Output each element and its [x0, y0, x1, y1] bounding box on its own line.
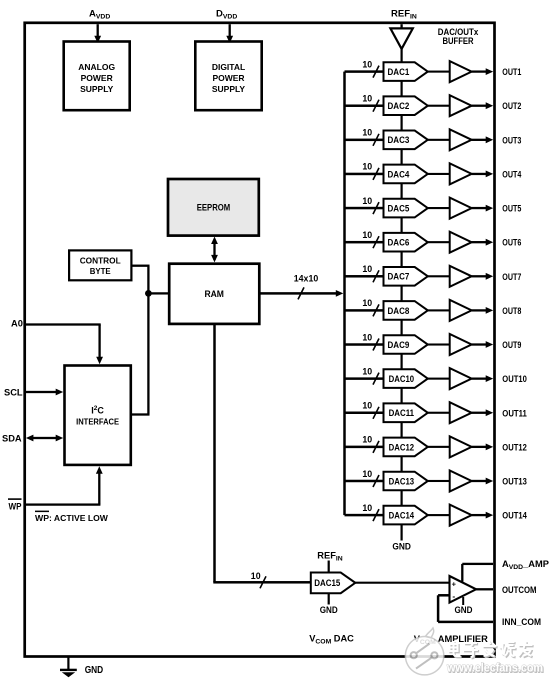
svg-text:OUT4: OUT4: [502, 169, 522, 179]
svg-text:SDA: SDA: [2, 434, 22, 444]
ref chain wire: [401, 354, 403, 370]
svg-text:DAC13: DAC13: [389, 476, 415, 486]
block CONTROL BYTE: [69, 250, 131, 280]
pin label AVDD_AMP: [502, 559, 549, 571]
svg-text:OUT3: OUT3: [502, 135, 521, 145]
dac block DAC5: [384, 199, 428, 218]
dac block DAC10: [384, 369, 428, 388]
wire CONTROL BYTE to I2C: [131, 265, 150, 416]
bus branch to DAC2 (10 bits): [345, 94, 384, 112]
svg-text:OUTCOM: OUTCOM: [502, 585, 537, 595]
svg-text:DAC14: DAC14: [389, 510, 415, 520]
bus branch to DAC13 (10 bits): [345, 469, 384, 487]
buffer amp row 2: [450, 95, 472, 116]
wire buffer to OUT5: [472, 205, 494, 212]
svg-text:10: 10: [362, 264, 372, 274]
wire WP to I2C: [25, 466, 103, 506]
svg-text:INN_COM: INN_COM: [502, 617, 541, 627]
svg-text:10: 10: [362, 298, 372, 308]
svg-text:DAC2: DAC2: [388, 101, 410, 111]
bus branch to DAC14 (10 bits): [345, 503, 384, 521]
ref chain wire: [401, 183, 403, 199]
caption VCOM DAC: [309, 634, 354, 646]
svg-text:10: 10: [362, 128, 372, 138]
buffer amp row 5: [450, 198, 472, 219]
wire buffer to OUT3: [472, 136, 494, 143]
svg-text:10: 10: [362, 196, 372, 206]
wire DAC14 to buffer: [428, 514, 450, 516]
op-amp VCOM amplifier: [450, 576, 477, 603]
buffer amp row 9: [450, 334, 472, 355]
buffer amp row 13: [450, 471, 472, 492]
bus branch to DAC5 (10 bits): [345, 196, 384, 214]
svg-text:OUT5: OUT5: [502, 204, 521, 214]
svg-text:POWER: POWER: [81, 73, 113, 83]
buffer amp row 14: [450, 505, 472, 526]
wire DAC13 to buffer: [428, 480, 450, 482]
wire DAC2 to buffer: [428, 105, 450, 107]
bus branch to DAC1 (10 bits): [345, 59, 384, 77]
svg-text:SUPPLY: SUPPLY: [212, 84, 246, 94]
dac block DAC3: [384, 131, 428, 150]
svg-text:DAC11: DAC11: [389, 408, 415, 418]
svg-text:DIGITAL: DIGITAL: [212, 62, 245, 72]
svg-text:-: -: [452, 591, 455, 601]
dac block DAC11: [384, 403, 428, 422]
chip outline border: [25, 23, 495, 657]
svg-text:OUT2: OUT2: [502, 101, 521, 111]
svg-text:OUT6: OUT6: [502, 238, 521, 248]
buffer amp row 10: [450, 368, 472, 389]
svg-text:OUT10: OUT10: [502, 374, 527, 384]
svg-text:10: 10: [362, 401, 372, 411]
wire buffer to OUT6: [472, 239, 494, 246]
svg-text:SCL: SCL: [4, 388, 23, 398]
wire DAC4 to buffer: [428, 173, 450, 175]
ref chain wire: [401, 320, 403, 336]
wire A0 to I2C: [25, 323, 103, 364]
svg-text:14x10: 14x10: [294, 273, 319, 283]
wire DAC10 to buffer: [428, 378, 450, 380]
ref chain wire: [401, 115, 403, 131]
wire buffer to OUT11: [472, 409, 494, 416]
wire DAC5 to buffer: [428, 207, 450, 209]
dac block DAC1: [384, 62, 428, 81]
svg-text:GND: GND: [85, 665, 104, 676]
wire INN_COM feedback: [437, 594, 493, 623]
svg-text:10: 10: [362, 469, 372, 479]
svg-text:SUPPLY: SUPPLY: [80, 84, 114, 94]
svg-text:WP: ACTIVE LOW: WP: ACTIVE LOW: [35, 513, 109, 523]
watermark logo disc: [405, 628, 443, 675]
svg-text:DAC4: DAC4: [388, 169, 411, 179]
svg-text:10: 10: [362, 366, 372, 376]
dac block DAC6: [384, 233, 428, 252]
svg-text:GND: GND: [392, 541, 411, 552]
svg-text:CONTROL: CONTROL: [80, 256, 121, 266]
wire buffer to OUT13: [472, 478, 494, 485]
svg-text:DAC7: DAC7: [388, 272, 410, 282]
svg-text:10: 10: [362, 230, 372, 240]
wire DAC15 to GND: [328, 593, 330, 604]
dac block DAC2: [384, 96, 428, 115]
svg-text:DAC15: DAC15: [314, 578, 340, 588]
ref chain wire: [401, 149, 403, 165]
pin label DVDD: [216, 9, 237, 21]
wire DAC8 to buffer: [428, 309, 450, 311]
svg-text:10: 10: [362, 332, 372, 342]
wire DAC9 to buffer: [428, 343, 450, 345]
svg-text:BYTE: BYTE: [90, 266, 111, 276]
svg-text:10: 10: [362, 435, 372, 445]
bus branch to DAC9 (10 bits): [345, 332, 384, 350]
svg-text:10: 10: [362, 162, 372, 172]
wire AVDD_AMP: [461, 563, 493, 582]
wire buffer to OUT8: [472, 307, 494, 314]
bus RAM to DACs 14x10: [259, 273, 343, 299]
svg-text:A0: A0: [11, 318, 23, 328]
block I2C INTERFACE: [65, 366, 131, 465]
bus branch to DAC12 (10 bits): [345, 435, 384, 453]
svg-text:OUT8: OUT8: [502, 306, 521, 316]
wire DAC14 to GND: [401, 524, 403, 540]
svg-text:WP: WP: [9, 502, 22, 512]
dac block DAC14: [384, 506, 428, 525]
wire buffer to OUT2: [472, 102, 494, 109]
dac block DAC15: [311, 573, 356, 594]
svg-text:10: 10: [362, 59, 372, 69]
ref chain wire: [401, 422, 403, 438]
watermark chinese glyphs: [450, 641, 462, 657]
svg-text:ANALOG: ANALOG: [78, 62, 115, 72]
wire buffer to OUT10: [472, 375, 494, 382]
buffer REFIN (triangle): [390, 28, 412, 49]
svg-text:POWER: POWER: [212, 73, 244, 83]
wire op-amp GND stub: [462, 597, 464, 605]
svg-text:BUFFER: BUFFER: [443, 36, 474, 47]
ref chain wire: [401, 217, 403, 233]
dac block DAC8: [384, 301, 428, 320]
buffer amp row 7: [450, 266, 472, 287]
wire buffer to OUT7: [472, 273, 494, 280]
bus branch to DAC8 (10 bits): [345, 298, 384, 316]
svg-text:OUT9: OUT9: [502, 340, 521, 350]
pin label REFIN (DAC15): [317, 551, 342, 563]
wire DAC6 to buffer: [428, 241, 450, 243]
bus branch to DAC6 (10 bits): [345, 230, 384, 248]
wire SCL to I2C: [25, 389, 64, 396]
ref chain wire: [401, 490, 403, 506]
caption DAC/OUTx BUFFER: [438, 27, 479, 47]
wire DAC12 to buffer: [428, 446, 450, 448]
svg-text:OUT7: OUT7: [502, 272, 521, 282]
wire DAC7 to buffer: [428, 275, 450, 277]
svg-text:DAC5: DAC5: [388, 203, 410, 213]
wire buffer to OUT12: [472, 444, 494, 451]
block DIGITAL POWER SUPPLY: [195, 42, 261, 111]
svg-text:DAC3: DAC3: [388, 135, 410, 145]
junction dot: [145, 290, 152, 297]
buffer amp row 3: [450, 129, 472, 150]
wire REFIN to DAC1: [401, 49, 403, 63]
svg-text:OUT14: OUT14: [502, 511, 527, 521]
bus branch to DAC4 (10 bits): [345, 162, 384, 180]
svg-text:DAC6: DAC6: [388, 238, 410, 248]
wire buffer to OUT4: [472, 171, 494, 178]
buffer amp row 11: [450, 402, 472, 423]
bus branch to DAC11 (10 bits): [345, 401, 384, 419]
svg-text:10: 10: [362, 94, 372, 104]
svg-text:GND: GND: [320, 605, 338, 615]
wire EEPROM-RAM double arrow: [211, 237, 218, 263]
bus branch to DAC10 (10 bits): [345, 366, 384, 384]
wire REFIN to DAC15: [328, 561, 330, 573]
svg-text:10: 10: [251, 571, 261, 581]
pin label AVDD: [89, 9, 110, 21]
buffer amp row 6: [450, 232, 472, 253]
dac block DAC13: [384, 472, 428, 491]
buffer amp row 8: [450, 300, 472, 321]
wire OUTCOM: [476, 588, 493, 590]
svg-text:OUT11: OUT11: [502, 408, 527, 418]
svg-text:DAC1: DAC1: [388, 67, 410, 77]
wire AVDD supply arrow: [94, 24, 101, 43]
bus vertical data line: [343, 72, 346, 515]
wire REFIN stub: [400, 24, 402, 28]
svg-text:+: +: [452, 580, 457, 589]
bus branch to DAC7 (10 bits): [345, 264, 384, 282]
wire buffer to OUT14: [472, 512, 494, 519]
dac block DAC4: [384, 165, 428, 184]
buffer amp row 1: [450, 61, 472, 82]
pin label WP (active low): [8, 498, 22, 511]
bus RAM to DAC15 (10 bits): [213, 324, 311, 588]
wire DAC11 to buffer: [428, 412, 450, 414]
block ANALOG POWER SUPPLY: [64, 42, 130, 111]
wire buffer to OUT1: [472, 68, 494, 75]
svg-text:RAM: RAM: [204, 289, 224, 299]
svg-text:I2C: I2C: [91, 405, 104, 416]
svg-text:GND: GND: [455, 605, 473, 615]
svg-text:INTERFACE: INTERFACE: [76, 417, 119, 427]
buffer amp row 12: [450, 436, 472, 457]
buffer amp row 4: [450, 163, 472, 184]
svg-text:www.elecfans.com: www.elecfans.com: [446, 661, 543, 675]
svg-text:OUT12: OUT12: [502, 442, 527, 452]
svg-text:EEPROM: EEPROM: [197, 202, 231, 212]
svg-text:OUT13: OUT13: [502, 476, 527, 486]
wire buffer to OUT9: [472, 341, 494, 348]
ref chain wire: [401, 252, 403, 268]
wire DAC3 to buffer: [428, 139, 450, 141]
wire SDA bidirectional: [26, 435, 63, 442]
wire RAM to junction: [148, 292, 169, 294]
block RAM: [169, 264, 259, 324]
caption VCOM AMPLIFIER: [414, 634, 488, 646]
block EEPROM: [168, 179, 259, 236]
ref chain wire: [401, 388, 403, 404]
svg-text:10: 10: [362, 503, 372, 513]
wire DAC15 to VCOM amp: [355, 582, 449, 584]
dac block DAC7: [384, 267, 428, 286]
pin label REFIN: [391, 9, 417, 21]
wire DAC1 to buffer: [428, 71, 450, 73]
bus branch to DAC3 (10 bits): [345, 128, 384, 146]
ref chain wire: [401, 81, 403, 97]
caption WP: ACTIVE LOW: [35, 511, 109, 523]
svg-text:OUT1: OUT1: [502, 67, 521, 77]
ref chain wire: [401, 456, 403, 472]
dac block DAC9: [384, 335, 428, 354]
svg-text:DAC8: DAC8: [388, 306, 410, 316]
dac block DAC12: [384, 438, 428, 457]
wire DVDD supply arrow: [226, 24, 233, 43]
ground symbol: [60, 657, 77, 678]
svg-text:DAC9: DAC9: [388, 340, 410, 350]
svg-text:DAC10: DAC10: [389, 374, 415, 384]
ref chain wire: [401, 286, 403, 302]
svg-text:DAC12: DAC12: [389, 442, 415, 452]
